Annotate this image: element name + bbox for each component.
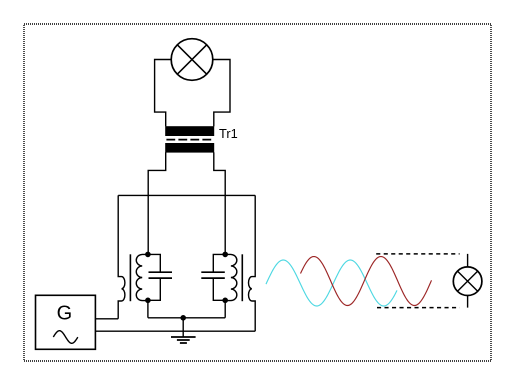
svg-text:Tr1: Tr1: [219, 126, 238, 141]
svg-text:G: G: [57, 303, 73, 325]
